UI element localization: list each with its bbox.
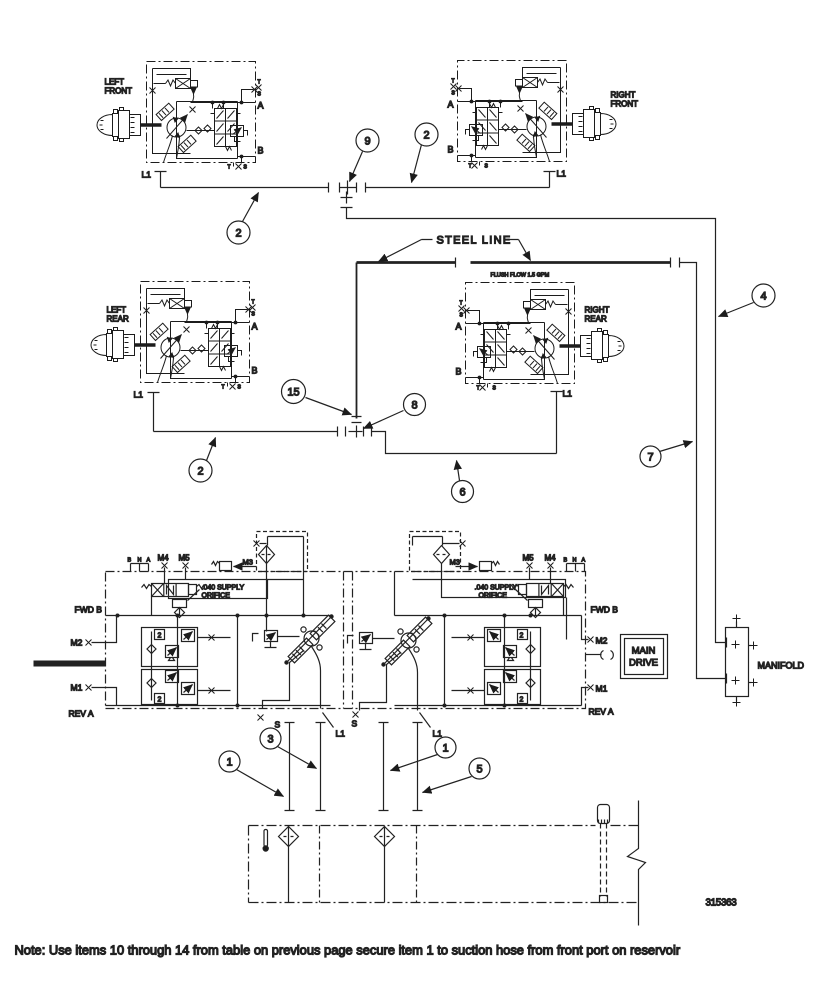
pump charge valve block right (mirrored) [511, 563, 585, 618]
svg-text:2: 2 [520, 633, 524, 640]
svg-text:B: B [258, 146, 264, 156]
wire steel line drop to rear junction [356, 263, 358, 419]
svg-text:Note: Use items 10 through 14: Note: Use items 10 through 14 from table… [15, 943, 681, 958]
svg-text:S: S [460, 313, 464, 319]
wire rear L1 left run [154, 431, 338, 433]
svg-text:6: 6 [459, 487, 465, 499]
svg-text:T: T [460, 301, 463, 307]
strainer filter left [288, 826, 290, 903]
port M2 right [582, 616, 589, 640]
label 2 boxes text [158, 633, 524, 704]
svg-text:FWD B: FWD B [591, 605, 619, 615]
svg-text:S: S [493, 386, 497, 392]
wire rear loop to right rear [372, 432, 557, 454]
center relief valve right (mirrored) [348, 633, 395, 650]
wire supply drop right [566, 598, 568, 640]
svg-text:LEFT: LEFT [105, 78, 125, 87]
svg-text:15: 15 [287, 387, 299, 399]
svg-text:4: 4 [760, 291, 766, 303]
svg-text:M5: M5 [523, 554, 535, 563]
svg-text:2: 2 [197, 466, 203, 478]
callout 8 [404, 394, 426, 416]
temp gauge [264, 830, 268, 847]
svg-text:315363: 315363 [706, 898, 738, 909]
wire front L1 right run [366, 187, 550, 189]
junction front tee fittings [340, 181, 366, 195]
callout 4 [752, 284, 775, 307]
callout 9 [356, 129, 379, 152]
svg-text:M2: M2 [71, 638, 83, 648]
svg-text:M4: M4 [545, 554, 557, 563]
svg-text:T: T [452, 79, 455, 85]
tank internal dividers [320, 826, 417, 903]
filter loop right [410, 532, 461, 572]
charge pump group boxes left [142, 616, 238, 706]
svg-text:L1: L1 [134, 390, 144, 400]
suction hose stub 1 (left S) [285, 723, 295, 811]
svg-text:FRONT: FRONT [611, 100, 639, 109]
svg-text:N: N [138, 558, 142, 564]
svg-text:2: 2 [158, 697, 162, 704]
wire FWD bus left [106, 615, 331, 617]
pump symbol left [263, 615, 335, 709]
svg-text:DRIVE: DRIVE [629, 658, 658, 669]
svg-text:8: 8 [411, 400, 417, 412]
suction hose stub (right S) [379, 723, 389, 811]
svg-text:A: A [582, 558, 586, 564]
svg-text:A: A [456, 322, 462, 332]
svg-text:S: S [258, 92, 262, 98]
svg-text:A: A [448, 100, 454, 110]
callout 3 [260, 728, 281, 749]
svg-text:S: S [452, 91, 456, 97]
svg-text:7: 7 [647, 452, 653, 464]
svg-text:STEEL LINE: STEEL LINE [437, 235, 512, 247]
input shaft [34, 661, 106, 667]
wire front L1 left run [161, 183, 329, 193]
svg-text:B: B [128, 558, 132, 564]
center relief valve left [253, 631, 300, 648]
svg-text:B: B [456, 367, 462, 377]
wire steel line [357, 261, 671, 264]
svg-text:B: B [252, 366, 258, 376]
svg-text:S: S [244, 165, 248, 171]
svg-text:S: S [252, 312, 256, 318]
callout 15 [282, 380, 306, 404]
svg-text:M3: M3 [450, 558, 460, 567]
strainer filter mid [384, 826, 386, 903]
svg-text:RIGHT: RIGHT [611, 91, 636, 100]
svg-text:S: S [238, 385, 242, 391]
svg-text:1: 1 [442, 743, 448, 755]
svg-text:1: 1 [226, 757, 232, 769]
callout 7 [640, 446, 661, 467]
svg-text:3: 3 [267, 734, 273, 746]
svg-text:L1: L1 [557, 169, 567, 179]
filter loop left [257, 532, 308, 572]
hose stub right L1 [413, 723, 423, 811]
svg-text:L1: L1 [433, 729, 443, 739]
supply orifice box left [169, 580, 268, 599]
motor LF (left front wheel motor) [97, 62, 258, 170]
wire REV bus right [395, 705, 582, 707]
svg-text:MANIFOLD: MANIFOLD [758, 661, 805, 671]
svg-text:L1: L1 [336, 729, 346, 739]
callout 2 (front right hose) [415, 123, 438, 146]
svg-text:T: T [469, 164, 472, 170]
svg-text:M1: M1 [71, 683, 83, 693]
svg-text:.040 SUPPLY: .040 SUPPLY [475, 585, 518, 592]
callout 2 (rear left hose) [189, 459, 212, 482]
svg-text:T: T [258, 80, 261, 86]
svg-text:FWD B: FWD B [75, 605, 103, 615]
pump assembly center divider [343, 572, 345, 709]
charge pump group boxes right (mirrored) [445, 616, 541, 706]
svg-text:T: T [228, 165, 231, 171]
svg-text:A: A [147, 558, 151, 564]
svg-text:N: N [573, 558, 577, 564]
main drive box U1 [621, 635, 668, 679]
svg-text:T: T [477, 386, 480, 392]
svg-text:FLUSH FLOW 1.5 GPM: FLUSH FLOW 1.5 GPM [491, 273, 550, 279]
svg-text:T: T [222, 385, 225, 391]
coupling to main drive [586, 654, 602, 656]
callout 2 (front left hose) [227, 221, 250, 244]
motor RR (right rear wheel motor) [464, 283, 625, 391]
suction pipe with cap [598, 805, 610, 824]
supply orifice box right [442, 580, 566, 598]
motor LR (left rear wheel motor) [91, 282, 252, 390]
svg-text:M5: M5 [179, 554, 191, 563]
svg-text:M3: M3 [243, 558, 253, 567]
svg-text:B: B [448, 145, 454, 155]
svg-text:S: S [352, 719, 358, 729]
callout 6 [452, 481, 474, 503]
svg-text:L1: L1 [142, 170, 152, 180]
label B N A left [128, 558, 151, 564]
svg-text:A: A [252, 322, 258, 332]
pump symbol right (translated) [360, 617, 432, 711]
svg-text:ORIFICE: ORIFICE [202, 593, 231, 600]
port M1 right [582, 688, 589, 706]
tank right wall with break [628, 801, 646, 926]
svg-text:MAIN: MAIN [632, 646, 656, 657]
svg-text:REV A: REV A [69, 709, 94, 719]
svg-text:.040 SUPPLY: .040 SUPPLY [202, 585, 245, 592]
callout 1 (left) [219, 751, 240, 772]
svg-text:REAR: REAR [585, 315, 607, 324]
pump charge valve block left [131, 563, 205, 618]
svg-text:LEFT: LEFT [107, 306, 127, 315]
reservoir tank outline [249, 825, 639, 827]
svg-text:S: S [485, 164, 489, 170]
wire REV bus left [106, 705, 331, 707]
hose stub left L1 [316, 723, 326, 811]
svg-text:2: 2 [423, 130, 429, 142]
motor RF (right front wheel motor) [456, 61, 617, 169]
svg-text:L1: L1 [563, 389, 573, 399]
svg-text:5: 5 [476, 764, 482, 776]
svg-text:2: 2 [235, 228, 241, 240]
svg-text:T: T [252, 300, 255, 306]
svg-text:RIGHT: RIGHT [585, 306, 610, 315]
pump assembly outer dashed box [106, 572, 586, 709]
svg-text:2: 2 [520, 697, 524, 704]
svg-text:REV A: REV A [589, 707, 614, 717]
svg-text:ORIFICE: ORIFICE [479, 593, 508, 600]
manifold block [726, 628, 749, 697]
wire junction to manifold riser [341, 208, 726, 643]
callout 1 (right) [435, 737, 456, 758]
drain port S left [258, 715, 264, 721]
svg-text:M4: M4 [158, 554, 170, 563]
svg-text:M1: M1 [596, 684, 608, 694]
svg-text:2: 2 [158, 633, 162, 640]
svg-text:REAR: REAR [107, 315, 129, 324]
svg-text:M2: M2 [596, 636, 608, 646]
svg-text:A: A [258, 101, 264, 111]
svg-text:FRONT: FRONT [105, 87, 133, 96]
callout 5 [469, 758, 490, 779]
svg-text:B: B [564, 558, 568, 564]
wire FWD bus right [395, 615, 582, 617]
drain port S right [353, 712, 359, 718]
svg-text:S: S [275, 720, 281, 730]
svg-text:9: 9 [364, 136, 370, 148]
label B N A right [564, 558, 586, 564]
